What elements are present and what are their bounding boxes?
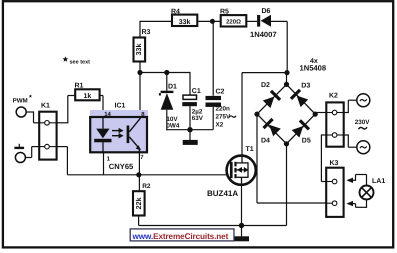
svg-text:LA1: LA1	[372, 178, 385, 185]
svg-text:C2: C2	[216, 89, 225, 96]
svg-text:1N4007: 1N4007	[250, 30, 277, 39]
zener D1	[161, 91, 174, 93]
resistor R3	[134, 38, 146, 62]
banner ExtremeCircuits	[130, 229, 234, 241]
node R3-pin8	[137, 70, 142, 75]
plug arrow top	[346, 178, 353, 183]
wire	[343, 134, 348, 136]
capacitor C2	[206, 96, 222, 100]
AC source bottom	[357, 141, 370, 154]
wire	[189, 72, 191, 95]
wire	[100, 95, 103, 97]
K2 pin 1	[326, 112, 332, 114]
wire	[138, 216, 140, 226]
resistor R4	[172, 15, 197, 26]
svg-text:D1: D1	[168, 83, 177, 90]
optocoupler IC1 box	[90, 117, 147, 152]
ground C1	[189, 130, 191, 140]
wire	[271, 20, 287, 22]
svg-text:CNY65: CNY65	[109, 162, 134, 171]
K1 pin 2	[39, 146, 45, 148]
transistor T1	[227, 156, 256, 185]
ground stub input	[18, 144, 20, 147]
note star	[62, 56, 68, 62]
IC1 LED	[102, 117, 104, 129]
wire	[166, 73, 168, 91]
wire	[242, 72, 287, 74]
ground main	[241, 226, 243, 237]
svg-text:33k: 33k	[179, 18, 191, 26]
node bridge top	[284, 82, 289, 87]
PWM star	[29, 94, 32, 97]
resistor R1	[75, 89, 99, 100]
svg-text:33k: 33k	[135, 44, 143, 56]
wire top rail	[140, 72, 190, 74]
node D1 top	[164, 70, 169, 75]
wire	[138, 152, 140, 191]
wire bridge edge TL	[257, 84, 287, 114]
svg-text:D4: D4	[261, 137, 270, 144]
wire	[140, 20, 172, 22]
svg-text:IC1: IC1	[115, 103, 126, 110]
K3 pin 2	[326, 202, 332, 204]
wire	[25, 157, 31, 159]
terminal PWM return	[15, 153, 25, 163]
node R4-R5-C2	[210, 19, 215, 24]
AC source top	[357, 94, 370, 107]
diode D5	[291, 119, 310, 138]
wire	[241, 185, 243, 226]
wire	[212, 107, 214, 130]
terminal PWM	[16, 107, 26, 117]
svg-text:1N5408: 1N5408	[300, 64, 327, 73]
wire	[321, 134, 326, 136]
wire pin1 drop	[103, 152, 105, 175]
svg-text:230V: 230V	[355, 119, 371, 126]
K3 pin 1	[326, 181, 332, 183]
diode D6	[257, 15, 260, 27]
connector K2	[326, 102, 343, 146]
K1 pin 1	[39, 122, 45, 124]
wire	[286, 144, 288, 226]
svg-text:220Ω: 220Ω	[226, 19, 241, 26]
wire	[256, 114, 258, 203]
node junction pin7	[136, 172, 141, 177]
node bridge bottom	[284, 141, 289, 146]
plug arrow bottom	[346, 201, 353, 206]
diode D4	[262, 118, 281, 137]
wire	[343, 112, 348, 114]
wire bridge edge BL	[257, 114, 287, 144]
svg-text:0W4: 0W4	[166, 123, 179, 130]
lamp LA1	[360, 186, 374, 200]
wire	[246, 20, 257, 22]
wire gate	[139, 174, 231, 176]
wire	[353, 179, 356, 181]
wire	[366, 200, 368, 208]
diode D2	[262, 90, 281, 109]
svg-text:K1: K1	[41, 102, 50, 109]
svg-text:D5: D5	[302, 137, 311, 144]
svg-text:PWM: PWM	[13, 98, 28, 105]
wire	[241, 73, 243, 155]
wire bridge top lead	[286, 73, 288, 85]
svg-text:K3: K3	[330, 160, 339, 167]
svg-text:C1: C1	[192, 88, 201, 95]
IC1 phototransistor	[127, 126, 130, 144]
wire	[26, 111, 33, 113]
connector K3	[326, 168, 343, 217]
svg-text:22k: 22k	[135, 197, 143, 209]
IC1 highlight band	[90, 110, 148, 149]
svg-text:see text: see text	[70, 59, 91, 65]
resistor R5	[221, 15, 247, 26]
wire	[212, 21, 214, 95]
svg-text:R2: R2	[142, 183, 151, 190]
svg-text:K2: K2	[329, 93, 338, 100]
connector K1	[39, 112, 56, 160]
svg-text:X2: X2	[216, 122, 224, 129]
svg-text:R3: R3	[142, 29, 151, 36]
wire	[197, 20, 220, 22]
capacitor C1	[183, 95, 197, 99]
resistor R2	[133, 191, 145, 215]
IC1 light arrows	[112, 130, 119, 132]
svg-text:220n: 220n	[216, 106, 231, 113]
wire	[315, 112, 326, 114]
node D6-bridge-T1	[284, 70, 289, 75]
wire	[139, 62, 141, 74]
wire	[189, 106, 191, 130]
svg-text:www.ExtremeCircuits.net: www.ExtremeCircuits.net	[132, 232, 229, 241]
wire	[139, 73, 141, 118]
wire	[57, 122, 68, 124]
svg-text:D3: D3	[301, 82, 310, 89]
node bridge right	[313, 112, 318, 117]
K2 pin 2	[326, 134, 332, 136]
wire bottom rail	[166, 129, 213, 131]
svg-text:T1: T1	[246, 146, 254, 153]
svg-text:BUZ41A: BUZ41A	[207, 189, 238, 198]
wire	[57, 146, 68, 148]
node bridge left	[254, 112, 259, 117]
svg-text:D2: D2	[261, 82, 270, 89]
diode D3	[290, 89, 309, 108]
wire bridge edge BR	[287, 114, 316, 144]
node C1 bottom	[187, 127, 192, 132]
svg-text:63V: 63V	[192, 115, 204, 122]
node T1 source	[239, 223, 244, 228]
wire bridge edge TR	[287, 84, 316, 114]
wire	[166, 110, 168, 131]
wire	[139, 21, 141, 38]
svg-text:D6: D6	[262, 8, 271, 15]
svg-text:14: 14	[104, 111, 111, 118]
svg-text:1k: 1k	[84, 92, 92, 100]
